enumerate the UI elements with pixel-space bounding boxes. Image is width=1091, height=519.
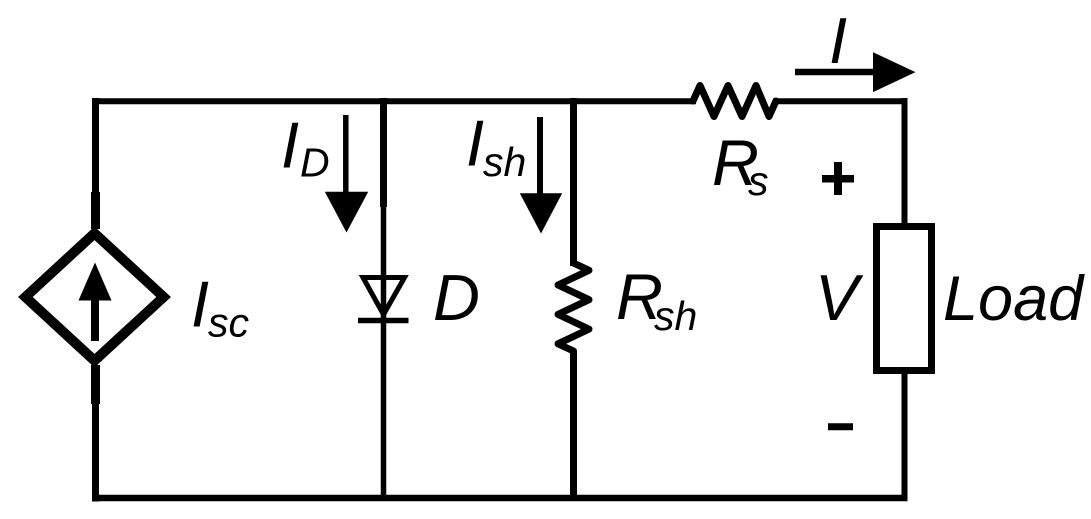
svg-text:I: I <box>829 4 847 77</box>
svg-text:D: D <box>300 140 330 186</box>
wire: diode branch lower <box>381 318 387 501</box>
resistor R_sh zigzag <box>558 263 589 351</box>
svg-text:sh: sh <box>483 139 526 185</box>
svg-text:D: D <box>433 261 480 334</box>
wire: left lower <box>92 365 99 502</box>
svg-text:sc: sc <box>208 300 250 346</box>
current source arrow head <box>79 263 112 301</box>
wire: right upper <box>902 98 908 226</box>
current arrow I_sh shaft <box>537 117 543 199</box>
minus sign <box>828 423 853 430</box>
diode D triangle <box>363 278 405 315</box>
load box <box>877 227 932 371</box>
svg-text:Load: Load <box>943 264 1085 334</box>
wire: right lower <box>902 372 908 501</box>
current arrow I_D shaft <box>343 115 349 198</box>
current source arrow shaft <box>91 297 99 341</box>
wire: top right segment <box>773 98 908 104</box>
wire: left upper <box>92 98 99 229</box>
current source I_sc diamond <box>25 233 163 360</box>
diode D cathode bar <box>358 318 409 324</box>
svg-text:sh: sh <box>654 293 697 339</box>
wire: left upper stub <box>91 192 100 229</box>
svg-text:s: s <box>748 158 769 204</box>
wire: left lower stub <box>91 365 100 404</box>
svg-text:I: I <box>191 268 209 341</box>
current arrow I_D head <box>325 192 368 233</box>
svg-text:V: V <box>815 261 864 334</box>
wire: shunt branch upper <box>570 98 577 266</box>
current arrow I shaft <box>795 69 878 76</box>
svg-text:I: I <box>466 107 484 180</box>
wire: shunt branch lower <box>570 351 577 501</box>
plus sign <box>822 175 854 183</box>
resistor R_s zigzag <box>693 86 776 117</box>
wire: bottom <box>93 495 908 502</box>
current arrow I head <box>873 52 916 92</box>
wire: diode branch upper thick <box>380 98 387 207</box>
wire: top left segment <box>93 98 697 104</box>
svg-text:I: I <box>281 109 299 182</box>
wire: diode branch upper thin <box>381 205 387 320</box>
current arrow I_sh head <box>520 193 562 233</box>
